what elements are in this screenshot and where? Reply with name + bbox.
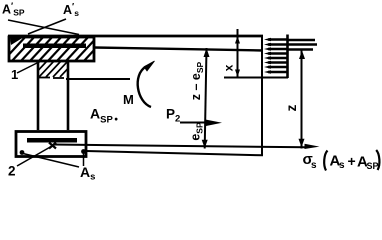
right bar dot bbox=[81, 149, 86, 154]
stress arrows in block bbox=[268, 40, 288, 73]
leader from As to right dot bbox=[83, 153, 85, 166]
web right wall bbox=[67, 61, 70, 130]
arrow up z dim bbox=[299, 51, 305, 60]
stress datum line bbox=[286, 35, 289, 79]
svg-text:z: z bbox=[284, 104, 299, 111]
arrow up x dim bbox=[235, 36, 240, 44]
svg-text:1: 1 bbox=[11, 67, 18, 82]
arrow up at top (z-esp) bbox=[204, 48, 210, 57]
bottom line of rectangle bbox=[86, 151, 263, 155]
bottom flange outline bbox=[16, 132, 86, 157]
svg-text:eSP: eSP bbox=[189, 122, 205, 141]
arrow down z dim bbox=[299, 139, 305, 148]
svg-text:ASP•: ASP• bbox=[90, 106, 118, 126]
leader from 2 to x marker bbox=[17, 146, 52, 166]
svg-text:2: 2 bbox=[8, 164, 16, 179]
web left wall bbox=[37, 61, 40, 130]
tendon bar A'sp in top flange bbox=[23, 44, 86, 49]
compression zone level line right of web bbox=[66, 78, 130, 80]
left bar dot bbox=[20, 150, 25, 155]
corner ink blob top-left of flange bbox=[10, 37, 24, 45]
dimension line x bbox=[237, 29, 239, 78]
svg-text:P2: P2 bbox=[166, 107, 180, 125]
svg-text:A′s: A′s bbox=[63, 2, 79, 19]
leader from As to left dot bbox=[23, 154, 79, 168]
svg-text:s: s bbox=[339, 160, 345, 171]
dimension line z bbox=[301, 50, 303, 149]
extended stress tails top bbox=[288, 40, 317, 50]
web break dashes bbox=[39, 77, 50, 79]
tendon bar Asp in bottom flange bbox=[27, 138, 77, 143]
arrow down at bottom (esp) bbox=[202, 140, 208, 148]
svg-text:As: As bbox=[80, 164, 95, 180]
stress block bottom line bbox=[224, 77, 288, 79]
web hatch bbox=[25, 61, 75, 77]
svg-text:A′SP: A′SP bbox=[2, 1, 25, 18]
sigma-s arrowhead bbox=[305, 144, 320, 149]
section face line bbox=[261, 35, 263, 155]
top line of pressure zone rectangle bbox=[8, 35, 263, 38]
mid flange level line bbox=[94, 48, 263, 51]
sigma-s force line bbox=[53, 145, 306, 148]
arrow down x dim bbox=[235, 70, 240, 78]
leader from A'sp to flange bbox=[8, 20, 79, 35]
svg-text:s: s bbox=[311, 160, 317, 171]
leader from 1 to web corner bbox=[17, 63, 38, 74]
top flange outline bbox=[9, 37, 94, 61]
dimension line z-esp / esp bbox=[205, 48, 207, 149]
svg-text:z – eSP: z – eSP bbox=[189, 61, 205, 100]
x marker on tendon bbox=[49, 143, 56, 149]
top flange hatch bbox=[2, 34, 109, 62]
svg-text:M: M bbox=[123, 92, 134, 107]
moment arc M bbox=[138, 67, 151, 108]
svg-text:x: x bbox=[222, 64, 236, 71]
force P2 arrow bbox=[180, 122, 210, 124]
moment arrowhead bbox=[144, 61, 155, 71]
leader from A's to flange bbox=[28, 19, 66, 34]
svg-text:+: + bbox=[348, 153, 356, 169]
